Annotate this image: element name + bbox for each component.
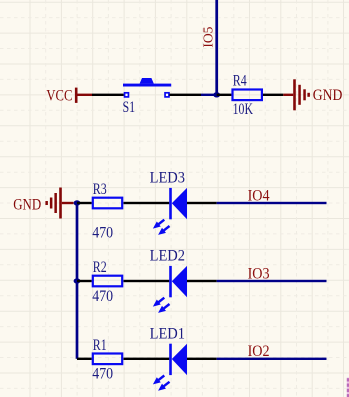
svg-text:IO5: IO5: [202, 27, 217, 48]
LED LED3: [150, 170, 187, 238]
junction: [213, 92, 220, 97]
wire: [217, 94, 232, 96]
wire: [187, 358, 217, 360]
switch S1: [123, 78, 172, 116]
junction: [74, 278, 81, 283]
LED LED2: [150, 248, 187, 316]
svg-text:R4: R4: [233, 73, 247, 90]
resistor R1: [92, 337, 122, 383]
wire: [124, 280, 170, 282]
svg-text:GND: GND: [13, 196, 41, 213]
power ground GND top right: [283, 79, 342, 110]
svg-text:LED3: LED3: [150, 170, 185, 187]
wire net IO2: [217, 358, 327, 360]
wire: [92, 94, 124, 96]
svg-text:IO2: IO2: [248, 343, 270, 360]
wire: [77, 358, 92, 360]
wire: [263, 94, 283, 96]
wire net IO4: [217, 202, 327, 204]
power ground GND left: [13, 188, 73, 219]
sheet edge fragment bottom right: [347, 378, 349, 397]
wire: [187, 280, 217, 282]
svg-text:R2: R2: [93, 259, 107, 276]
svg-text:LED1: LED1: [150, 325, 185, 342]
wire: [124, 202, 170, 204]
wire: [77, 280, 92, 282]
svg-text:10K: 10K: [233, 101, 254, 118]
wire IO5 vertical: [215, 0, 218, 95]
svg-text:470: 470: [92, 288, 113, 305]
wire: [77, 202, 92, 204]
svg-text:IO3: IO3: [248, 265, 270, 282]
wire: [201, 94, 217, 96]
svg-text:470: 470: [92, 366, 113, 383]
wire net IO3: [217, 280, 327, 282]
svg-text:R3: R3: [93, 181, 107, 198]
svg-text:470: 470: [92, 224, 113, 241]
wire: [187, 202, 217, 204]
svg-text:VCC: VCC: [46, 87, 72, 104]
wire: [169, 94, 201, 96]
svg-text:S1: S1: [123, 99, 136, 116]
svg-text:IO4: IO4: [248, 187, 270, 204]
resistor R2: [92, 259, 122, 305]
svg-text:GND: GND: [313, 87, 343, 104]
resistor R3: [92, 181, 122, 241]
svg-text:R1: R1: [93, 337, 107, 354]
wire vertical bus: [76, 203, 79, 359]
svg-text:LED2: LED2: [150, 248, 185, 265]
LED LED1: [150, 325, 187, 393]
resistor R4: [233, 73, 262, 118]
junction: [74, 200, 81, 205]
power port VCC: [46, 87, 92, 104]
wire: [124, 358, 170, 360]
